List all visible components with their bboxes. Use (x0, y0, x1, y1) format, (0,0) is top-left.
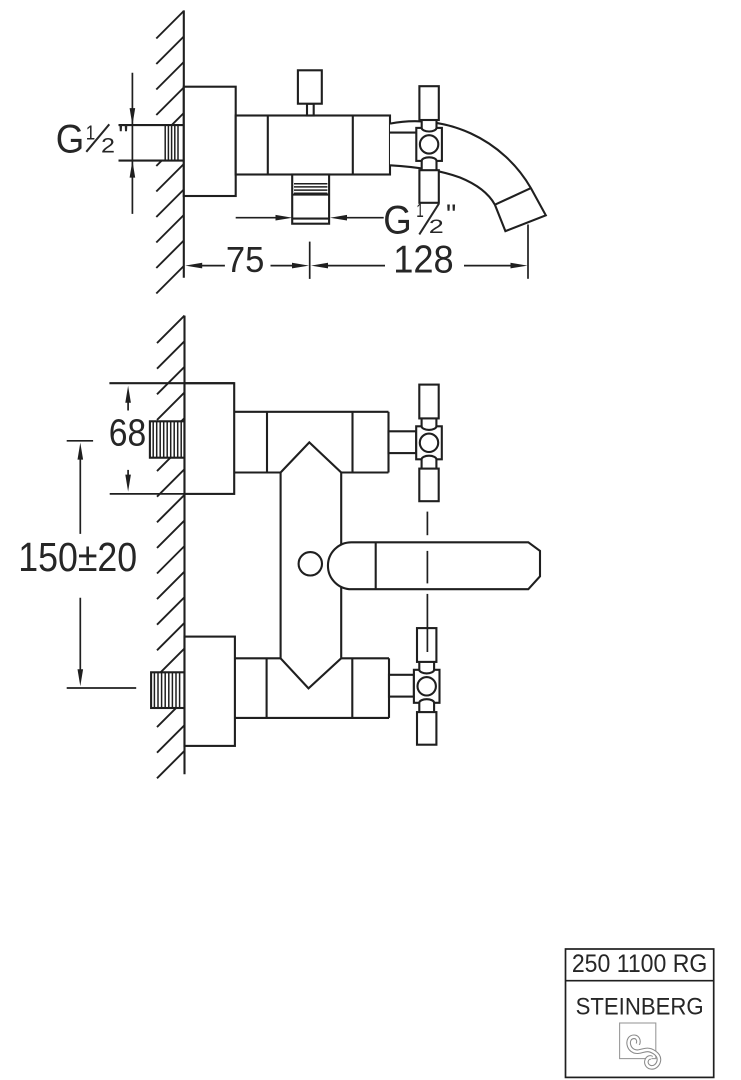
svg-text:STEINBERG: STEINBERG (576, 994, 704, 1021)
valve circle (418, 677, 436, 695)
handle lower neck (422, 157, 437, 178)
diverter circle (front view) (299, 552, 322, 575)
dimension 75 (wall to hose centre) (185, 239, 310, 280)
hose connector thread (side view) (292, 184, 329, 195)
upper cross handle valve (front view) (389, 385, 442, 502)
spout aerator line (495, 188, 531, 205)
valve connector (390, 132, 416, 134)
lower inlet pipe (front view) (235, 658, 389, 718)
svg-text:1: 1 (86, 121, 96, 144)
handle upper neck (422, 110, 437, 131)
dimension 128 (hose centre to spout) (311, 225, 528, 282)
handle lower grip (417, 712, 436, 745)
dimension 150 plus/minus 20 (connection spacing) (18, 441, 137, 688)
body segment line 1 (side view) (267, 116, 269, 175)
lower cross handle valve (front view) (389, 628, 440, 745)
pipe thread (side view) (165, 125, 178, 161)
valve square body (416, 426, 442, 459)
svg-text:G: G (383, 199, 412, 243)
lower wall flange (front view) (185, 637, 235, 746)
valve circle (420, 135, 438, 153)
lever handle (front view) (328, 542, 540, 589)
wall flange (side view) (184, 87, 236, 196)
valve connector (389, 431, 417, 453)
spout (side view) (390, 121, 546, 231)
svg-text:68: 68 (109, 413, 147, 455)
shower hose connector body (side view) (292, 175, 329, 224)
mixer body (side view) (236, 116, 390, 175)
svg-text:2: 2 (429, 216, 444, 238)
valve centre line (front view) (426, 512, 428, 652)
lower wall thread block (front view) (151, 672, 184, 708)
wall line (front view) (183, 316, 185, 775)
handle upper grip (419, 86, 438, 120)
valve square body (414, 670, 440, 703)
svg-text:G: G (56, 117, 85, 161)
dimension 68 (flange height) (109, 386, 147, 492)
svg-text:": " (118, 120, 128, 152)
centre tick (309, 242, 311, 279)
lever segment line (375, 542, 377, 589)
svg-text:150±20: 150±20 (18, 534, 137, 580)
handle lower grip (419, 170, 438, 203)
handle upper neck (422, 409, 437, 430)
valve square body (416, 128, 442, 161)
upper wall flange (front view) (185, 383, 235, 494)
valve connector (389, 675, 414, 697)
body segment line 2 (side view) (352, 116, 354, 175)
valve circle (420, 434, 438, 452)
hose connector lip (side view) (292, 218, 329, 220)
top knob (side view) (298, 70, 322, 103)
svg-text:75: 75 (226, 239, 265, 280)
wall hatching (side view) (156, 11, 184, 294)
title block divider (566, 980, 714, 982)
upper inlet pipe (front view) (234, 412, 388, 473)
logo swirl (629, 1037, 659, 1068)
upper centre tick (67, 440, 93, 442)
svg-text:": " (446, 199, 456, 231)
svg-text:1: 1 (416, 201, 424, 222)
svg-text:128: 128 (393, 239, 454, 282)
svg-text:250 1100 RG: 250 1100 RG (572, 951, 708, 978)
upper wall thread block (front view) (150, 421, 185, 457)
dimension G1/2 pipe (vertical) (56, 73, 135, 214)
lower centre tick (67, 687, 137, 689)
wall line (side view) (183, 10, 185, 277)
wall hatching (front view) (157, 316, 185, 779)
logo square (620, 1023, 656, 1059)
handle upper grip (419, 385, 438, 419)
cross handle valve (side view) (390, 86, 442, 203)
handle upper grip (417, 628, 436, 662)
handle lower grip (419, 469, 438, 502)
top knob stem (side view) (307, 104, 314, 116)
handle lower neck (419, 699, 434, 720)
central riser column (front view) (281, 442, 342, 688)
flange bottom extension line (110, 493, 185, 495)
title block frame (566, 949, 714, 1077)
svg-text:2: 2 (101, 134, 115, 157)
handle upper neck (419, 652, 434, 673)
dimension G1/2 hose connector (horizontal) (236, 199, 457, 243)
flange top extension line (109, 382, 234, 384)
spout extension line (527, 225, 529, 279)
handle lower neck (422, 456, 437, 477)
supply pipe G1/2 in wall (side view) (119, 125, 184, 161)
